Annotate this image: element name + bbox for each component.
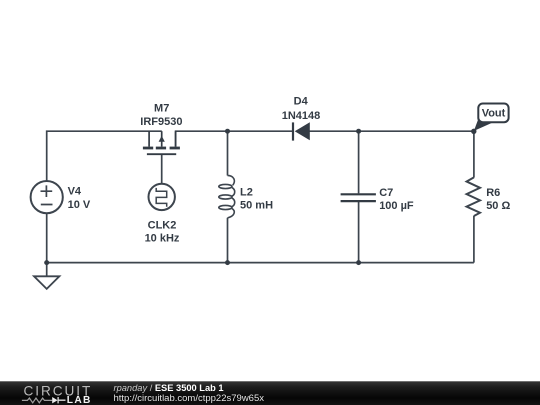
wire: R6 top lead <box>473 131 475 177</box>
wire: bottom ground rail <box>47 262 474 264</box>
logo resistor-diode glyph <box>22 398 52 403</box>
wire: C7 top lead <box>358 131 360 193</box>
ground <box>34 263 59 289</box>
wire: R6 bottom lead <box>473 216 475 263</box>
wire: top rail left segment (V4 top to M7 body) <box>47 131 162 181</box>
svg-text:R6: R6 <box>486 187 500 199</box>
wire: top rail from diode to right corner <box>310 130 474 132</box>
svg-text:50 mH: 50 mH <box>240 199 273 211</box>
wire: C7 bottom lead <box>358 202 360 263</box>
voltage source V4 <box>31 181 63 213</box>
svg-text:100 µF: 100 µF <box>379 200 414 212</box>
junction: L2 top node <box>225 129 230 134</box>
svg-text:http://circuitlab.com/ctpp22s7: http://circuitlab.com/ctpp22s79w65x <box>114 393 265 404</box>
svg-text:1N4148: 1N4148 <box>282 110 321 122</box>
wire: L2 bottom lead <box>227 218 229 263</box>
junction: C7 bottom node <box>356 260 361 265</box>
svg-text:M7: M7 <box>154 103 169 115</box>
svg-text:50 Ω: 50 Ω <box>486 200 510 212</box>
diode D4 (1N4148) <box>293 122 310 140</box>
resistor R6 <box>467 177 480 216</box>
svg-text:10 kHz: 10 kHz <box>145 232 180 244</box>
svg-text:V4: V4 <box>68 186 82 198</box>
wire: V4 bottom to ground rail <box>46 213 48 263</box>
node Vout flag <box>474 104 509 131</box>
clock source CLK2 <box>149 184 175 210</box>
svg-text:Vout: Vout <box>482 108 506 120</box>
svg-text:LAB: LAB <box>67 395 92 405</box>
wire: M7 gate to CLK2 <box>161 155 163 184</box>
junction: C7 top node <box>356 129 361 134</box>
wire: L2 top lead <box>227 131 229 175</box>
svg-text:10 V: 10 V <box>68 199 91 211</box>
junction: ground node <box>44 260 49 265</box>
junction: Vout node <box>471 129 476 134</box>
inductor L2 <box>219 175 235 218</box>
svg-text:IRF9530: IRF9530 <box>140 116 182 128</box>
wire: top rail right segment (M7 drain to diode bar) <box>176 131 293 146</box>
capacitor C7 <box>341 194 376 201</box>
svg-text:D4: D4 <box>294 96 309 108</box>
junction: L2 bottom node <box>225 260 230 265</box>
svg-text:CLK2: CLK2 <box>148 220 177 232</box>
svg-text:C7: C7 <box>379 187 393 199</box>
transistor M7 (PMOS IRF9530) <box>143 131 180 154</box>
svg-text:L2: L2 <box>240 187 253 199</box>
svg-text:rpanday / ESE 3500 Lab 1: rpanday / ESE 3500 Lab 1 <box>114 383 224 393</box>
